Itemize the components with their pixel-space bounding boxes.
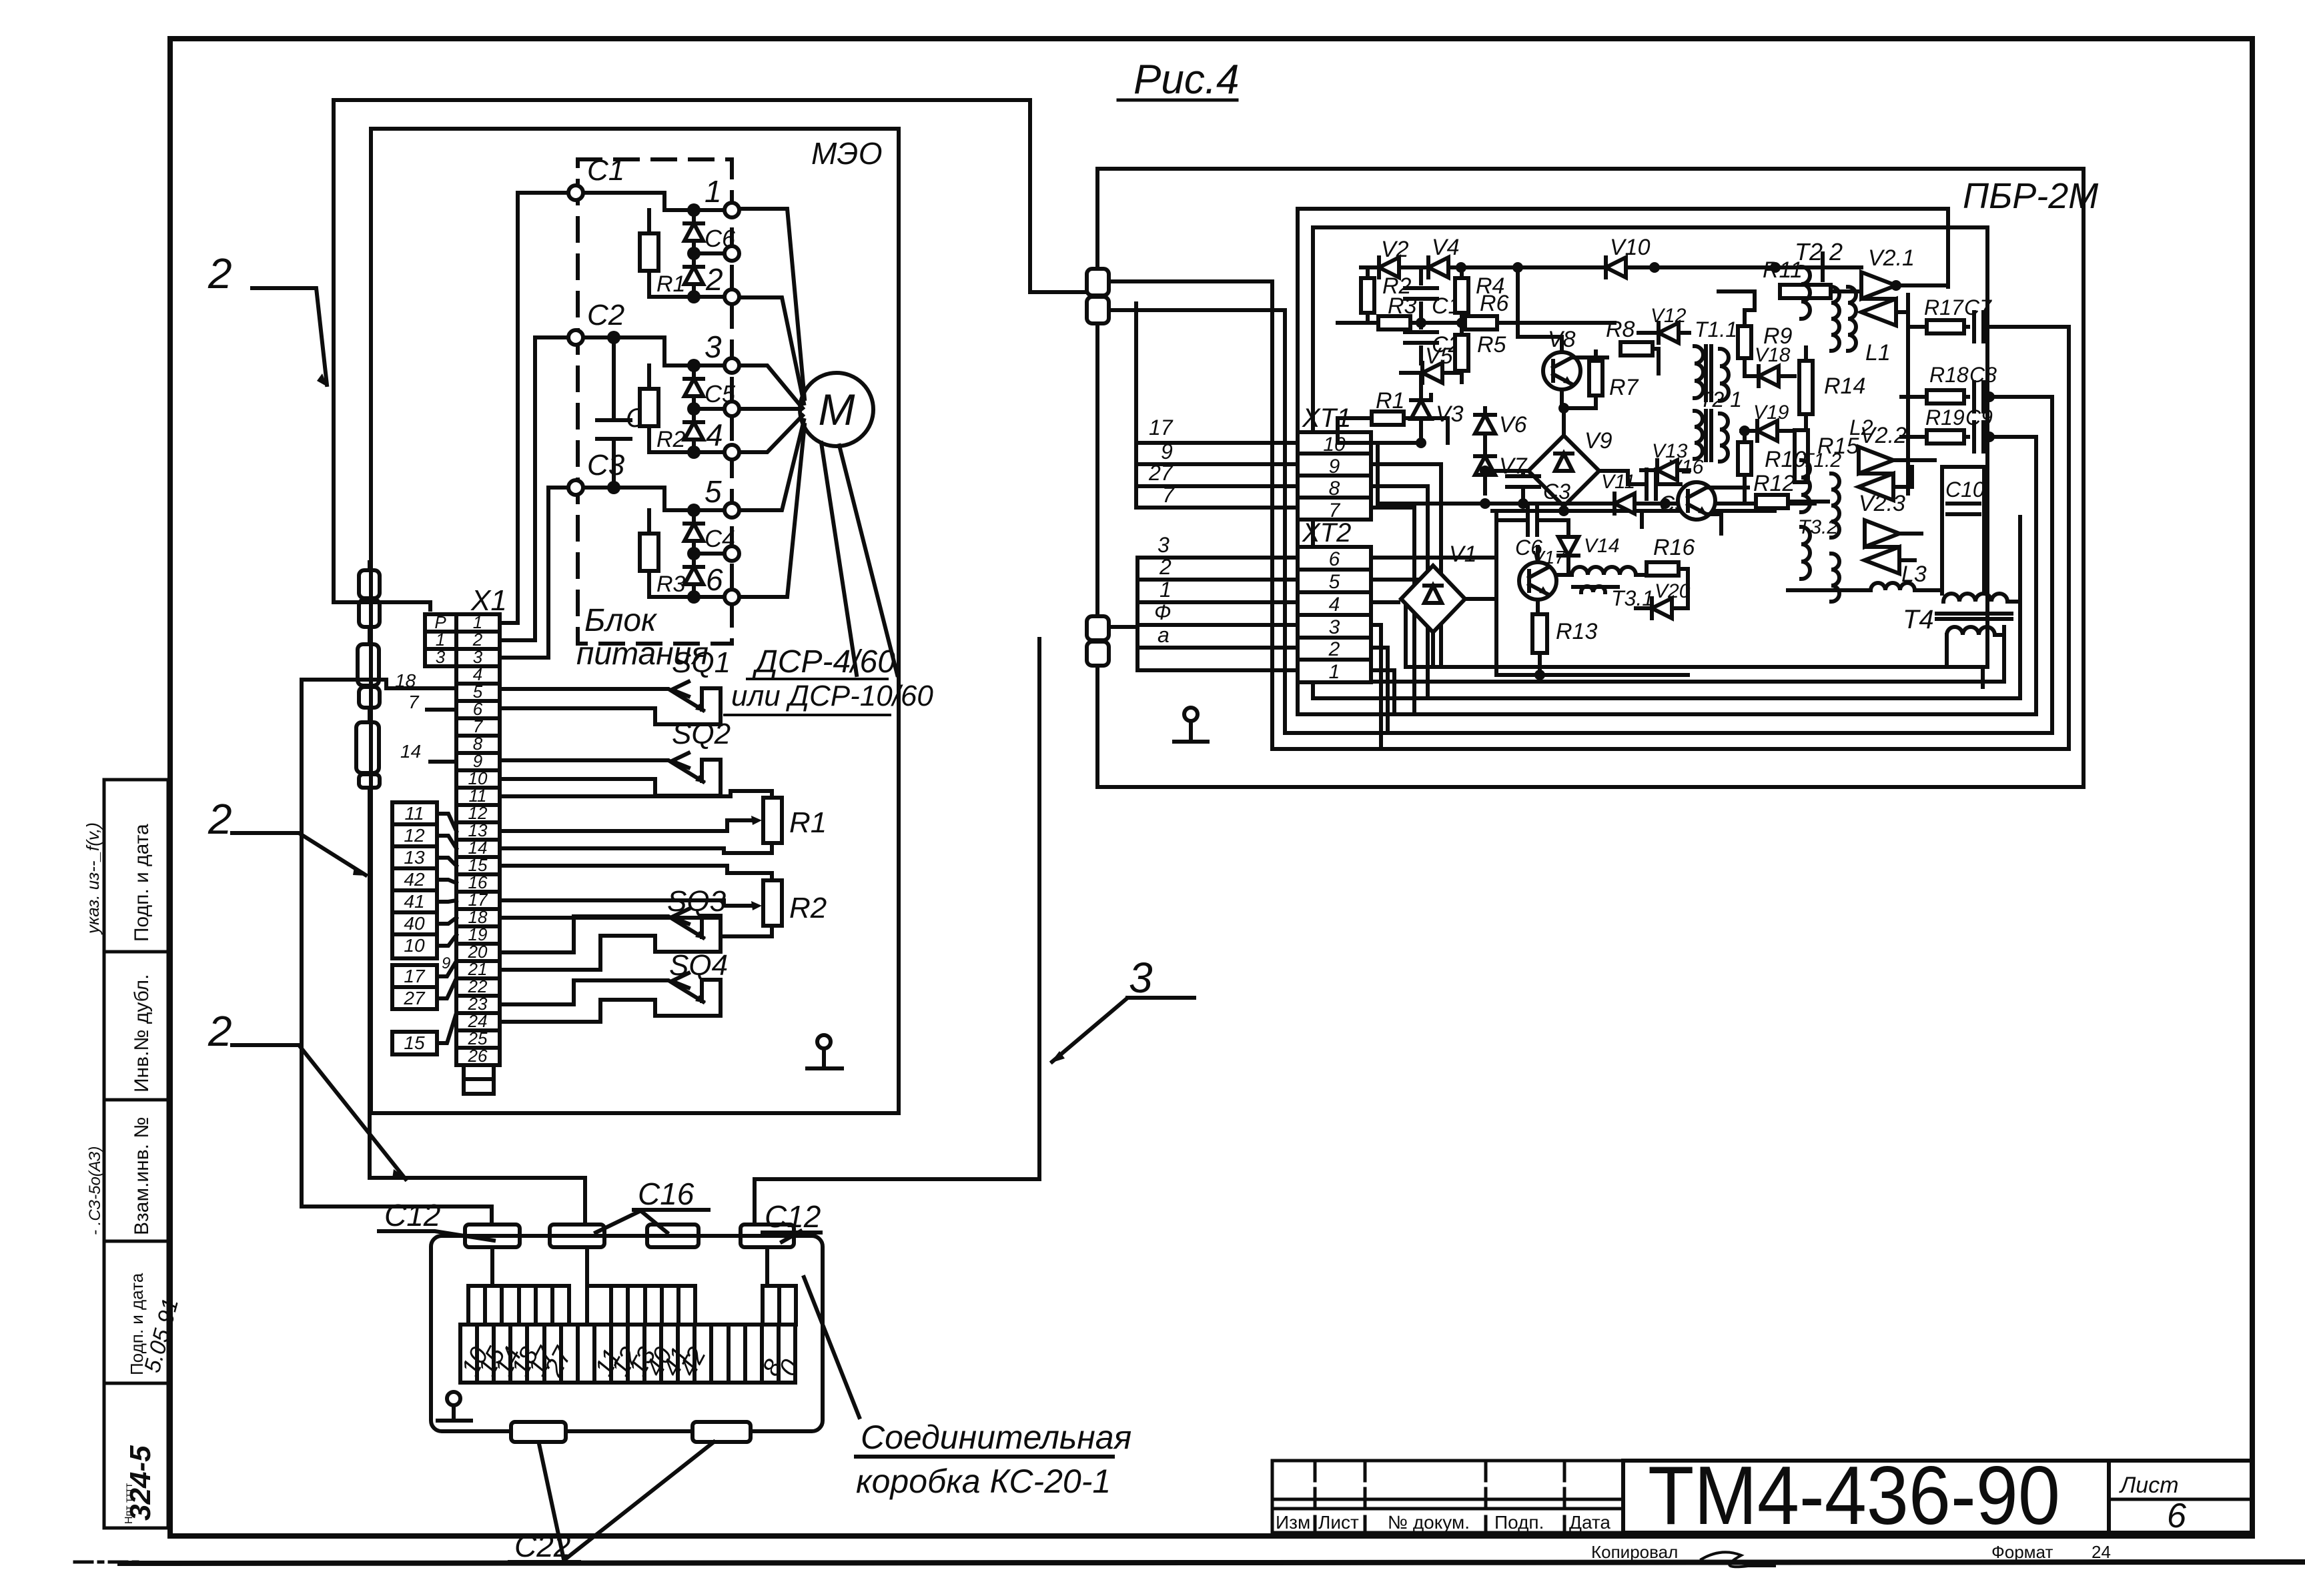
- svg-text:V2.3: V2.3: [1859, 491, 1905, 516]
- svg-text:Х1: Х1: [470, 584, 507, 617]
- svg-text:5: 5: [1329, 571, 1340, 593]
- svg-text:ТМ4-436-90: ТМ4-436-90: [1648, 1450, 2060, 1542]
- svg-text:Соединительная: Соединительная: [861, 1419, 1131, 1456]
- svg-text:R8: R8: [1606, 317, 1635, 342]
- svg-text:V1: V1: [1449, 542, 1477, 567]
- svg-text:С12: С12: [765, 1199, 821, 1234]
- svg-text:2: 2: [705, 262, 723, 297]
- svg-text:Лист: Лист: [1318, 1512, 1359, 1533]
- svg-text:R1: R1: [789, 806, 827, 839]
- svg-text:Т1.1: Т1.1: [1695, 317, 1737, 341]
- svg-text:Лист: Лист: [2119, 1473, 2179, 1498]
- svg-text:Подп. и дата: Подп. и дата: [131, 824, 153, 942]
- svg-text:Копировал: Копировал: [1591, 1542, 1678, 1562]
- svg-text:R1: R1: [656, 271, 685, 297]
- svg-text:2: 2: [207, 249, 232, 297]
- svg-text:13: 13: [404, 847, 425, 868]
- svg-text:Подп.: Подп.: [1494, 1512, 1544, 1533]
- svg-text:Т4: Т4: [1903, 605, 1934, 634]
- svg-text:ХТ2: ХТ2: [1302, 518, 1351, 548]
- svg-text:R7: R7: [1609, 375, 1639, 400]
- svg-text:2: 2: [207, 795, 232, 843]
- svg-text:R6: R6: [1480, 291, 1509, 316]
- svg-text:14: 14: [400, 741, 421, 762]
- svg-text:7: 7: [408, 692, 420, 712]
- svg-text:V18: V18: [1755, 344, 1791, 366]
- svg-text:V12: V12: [1651, 305, 1687, 327]
- svg-text:SQ1: SQ1: [672, 646, 731, 679]
- svg-text:9: 9: [1161, 440, 1173, 464]
- svg-text:№ докум.: № докум.: [1388, 1512, 1470, 1533]
- svg-text:Инв.№ дубл.: Инв.№ дубл.: [131, 974, 153, 1092]
- svg-text:указ. из--_f(v,): указ. из--_f(v,): [83, 822, 103, 935]
- svg-text:27: 27: [403, 988, 426, 1008]
- svg-text:R3: R3: [656, 572, 686, 597]
- svg-text:1: 1: [705, 174, 722, 209]
- svg-text:R2: R2: [789, 892, 827, 924]
- svg-text:4: 4: [1329, 594, 1340, 616]
- svg-text:С2: С2: [587, 299, 624, 331]
- svg-text:4: 4: [706, 418, 723, 452]
- svg-text:С5: С5: [705, 380, 736, 408]
- svg-text:С9: С9: [1965, 406, 1993, 430]
- svg-text:L1: L1: [1865, 340, 1891, 365]
- svg-text:Рис.4: Рис.4: [1133, 57, 1240, 103]
- svg-text:6: 6: [1329, 548, 1340, 570]
- svg-text:26: 26: [468, 1046, 488, 1066]
- svg-text:R19: R19: [1925, 406, 1965, 430]
- svg-text:V11: V11: [1601, 471, 1635, 493]
- svg-text:V20: V20: [1655, 580, 1691, 602]
- svg-text:С12: С12: [384, 1198, 440, 1233]
- svg-text:2: 2: [1159, 555, 1172, 579]
- svg-text:МЭО: МЭО: [811, 136, 883, 171]
- svg-text:а: а: [1158, 623, 1170, 647]
- svg-text:18: 18: [395, 670, 416, 691]
- svg-text:R12: R12: [1753, 471, 1795, 496]
- svg-text:SQ2: SQ2: [672, 718, 731, 750]
- svg-text:R18: R18: [1929, 363, 1969, 387]
- svg-text:С1: С1: [587, 154, 624, 187]
- svg-text:V2.1: V2.1: [1868, 245, 1915, 271]
- svg-text:2: 2: [1328, 638, 1340, 660]
- svg-text:V9: V9: [1584, 428, 1612, 454]
- svg-text:или ДСР-10/60: или ДСР-10/60: [731, 680, 933, 712]
- svg-text:24: 24: [2092, 1542, 2111, 1562]
- svg-text:7: 7: [1162, 483, 1175, 507]
- svg-text:R16: R16: [1653, 535, 1695, 560]
- svg-text:V5: V5: [1425, 343, 1453, 369]
- svg-text:С4: С4: [705, 525, 735, 552]
- svg-text:2: 2: [207, 1007, 232, 1055]
- svg-text:6: 6: [2167, 1497, 2186, 1535]
- svg-text:SQ4: SQ4: [669, 949, 728, 982]
- svg-text:R5: R5: [1477, 332, 1506, 357]
- svg-text:С8: С8: [1969, 363, 1997, 387]
- svg-text:V19: V19: [1753, 402, 1789, 424]
- svg-text:3: 3: [436, 647, 446, 667]
- svg-text:V2.2: V2.2: [1860, 423, 1907, 448]
- svg-text:С3: С3: [587, 449, 625, 482]
- svg-text:3: 3: [705, 329, 722, 364]
- svg-text:V13: V13: [1652, 440, 1688, 462]
- svg-text:Изм: Изм: [1276, 1512, 1310, 1533]
- svg-text:С3: С3: [1543, 480, 1570, 504]
- svg-text:V10: V10: [1610, 235, 1651, 260]
- svg-text:9: 9: [442, 954, 450, 972]
- svg-text:С6: С6: [705, 225, 736, 252]
- svg-text:С16: С16: [638, 1176, 695, 1211]
- svg-text:ПБР-2М: ПБР-2М: [1963, 176, 2098, 216]
- svg-text:Взам.инв. №: Взам.инв. №: [131, 1116, 153, 1235]
- svg-text:R14: R14: [1824, 373, 1865, 399]
- svg-text:8: 8: [1329, 478, 1340, 500]
- svg-text:Формат: Формат: [1991, 1542, 2053, 1562]
- svg-text:R13: R13: [1556, 619, 1597, 644]
- svg-text:41: 41: [404, 891, 424, 912]
- svg-text:V14: V14: [1584, 535, 1619, 557]
- svg-text:L3: L3: [1901, 562, 1927, 587]
- svg-text:V2: V2: [1381, 237, 1409, 262]
- svg-text:12: 12: [404, 825, 425, 846]
- svg-text:42: 42: [404, 869, 425, 890]
- svg-text:Ф: Ф: [1154, 600, 1171, 624]
- svg-text:3: 3: [1158, 533, 1170, 557]
- svg-text:40: 40: [404, 913, 425, 934]
- svg-text:Блок: Блок: [584, 603, 658, 638]
- svg-text:М: М: [819, 385, 855, 434]
- svg-text:V4: V4: [1432, 235, 1460, 260]
- svg-text:6: 6: [706, 562, 723, 597]
- svg-text:- .СЗ-5о(АЗ): - .СЗ-5о(АЗ): [86, 1146, 104, 1235]
- svg-text:Нпт тттт: Нпт тттт: [123, 1483, 135, 1524]
- svg-text:27: 27: [1148, 461, 1174, 485]
- svg-text:R2: R2: [656, 427, 686, 452]
- svg-text:R1: R1: [1376, 388, 1404, 414]
- svg-text:R3: R3: [1388, 293, 1417, 319]
- svg-text:С10: С10: [1945, 478, 1985, 502]
- svg-text:1: 1: [1329, 661, 1340, 683]
- svg-text:V6: V6: [1499, 412, 1527, 438]
- svg-text:Дата: Дата: [1569, 1512, 1610, 1533]
- svg-text:5: 5: [705, 474, 722, 509]
- svg-text:15: 15: [404, 1032, 425, 1053]
- svg-text:17: 17: [404, 966, 426, 986]
- svg-text:17: 17: [1149, 416, 1174, 440]
- svg-text:коробка КС-20-1: коробка КС-20-1: [856, 1463, 1111, 1500]
- svg-text:3: 3: [1329, 616, 1340, 638]
- svg-text:Т2 2: Т2 2: [1795, 238, 1843, 265]
- svg-text:С7: С7: [1964, 295, 1992, 319]
- svg-text:10: 10: [404, 935, 425, 956]
- svg-text:1: 1: [1160, 578, 1172, 602]
- svg-text:11: 11: [404, 803, 424, 824]
- svg-text:3: 3: [1129, 954, 1153, 1002]
- svg-text:R17: R17: [1924, 295, 1964, 319]
- svg-text:ДСР-4/60: ДСР-4/60: [752, 644, 895, 680]
- svg-text:9: 9: [1329, 456, 1340, 478]
- svg-text:Т2 1: Т2 1: [1699, 387, 1742, 412]
